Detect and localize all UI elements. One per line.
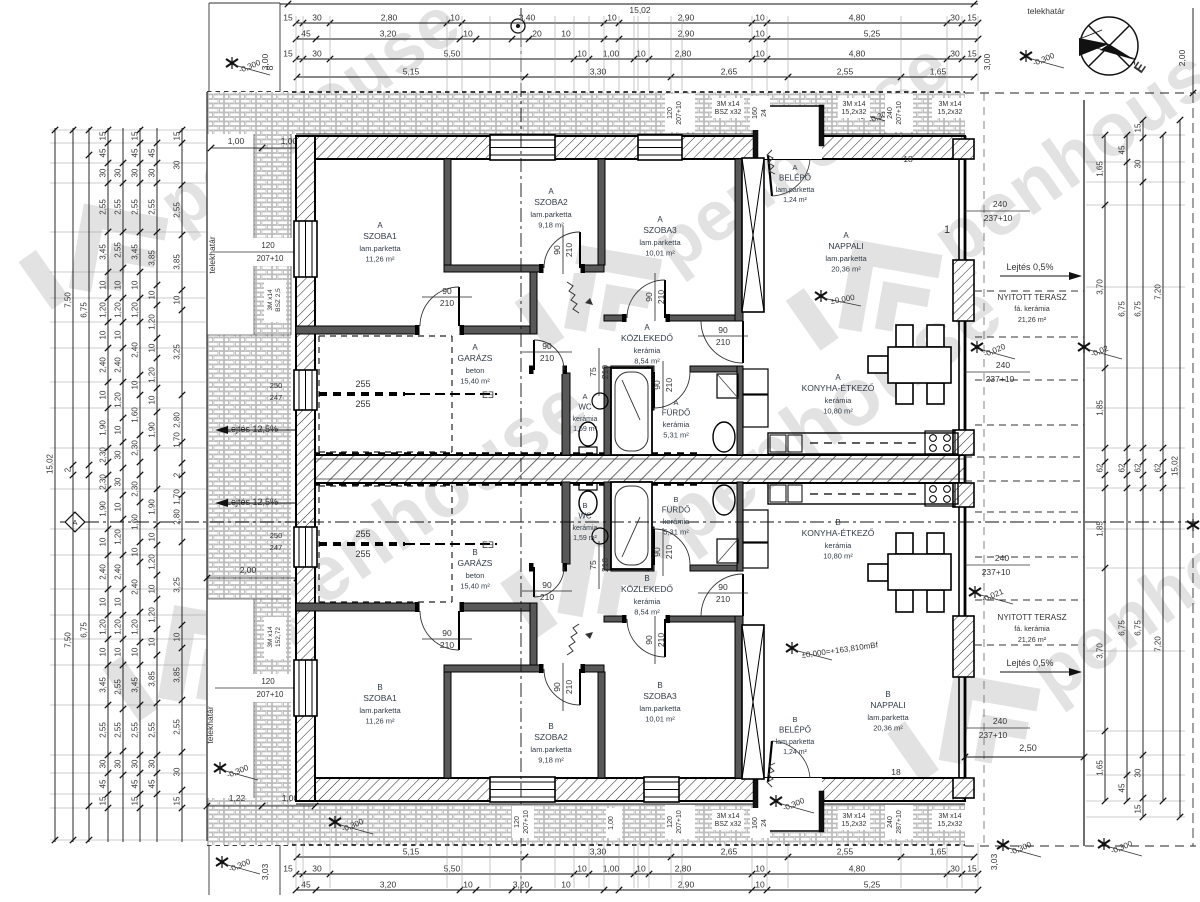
terrace dashed outline xyxy=(965,92,1196,94)
svg-text:6,75: 6,75 xyxy=(1118,620,1127,636)
svg-text:10: 10 xyxy=(148,584,157,593)
elevation star entry B xyxy=(770,795,782,807)
svg-text:B: B xyxy=(644,574,649,583)
svg-text:207+10: 207+10 xyxy=(257,254,284,263)
svg-text:fá. kerámia: fá. kerámia xyxy=(1014,304,1050,313)
terrace band continuation dashed xyxy=(965,456,1084,458)
dim 1,22 1,00 bottom left xyxy=(207,805,315,807)
elevation star entry A xyxy=(856,107,868,119)
svg-text:1,90: 1,90 xyxy=(99,501,108,517)
entry door leaf A xyxy=(768,155,772,196)
svg-text:15,2x32: 15,2x32 xyxy=(842,109,867,116)
door arc wc lobby xyxy=(534,340,564,370)
svg-text:15: 15 xyxy=(283,864,293,874)
svg-text:6,75: 6,75 xyxy=(1118,301,1127,317)
door arc szoba1 (B mirror) xyxy=(420,611,459,650)
bottom extension lines xyxy=(295,843,297,888)
svg-text:NYITOTT TERASZ: NYITOTT TERASZ xyxy=(997,613,1066,622)
svg-text:1,00: 1,00 xyxy=(603,864,620,874)
svg-text:10: 10 xyxy=(636,864,646,874)
door gap szoba3 (B mirror) xyxy=(626,615,666,623)
horizontal axis line (dash-dot) xyxy=(60,521,1196,523)
svg-text:SZOBA2: SZOBA2 xyxy=(534,197,568,207)
top dimension chain 3 xyxy=(296,58,978,60)
svg-text:3,85: 3,85 xyxy=(148,250,157,266)
axis marker top circle xyxy=(511,19,525,33)
svg-text:3M x14: 3M x14 xyxy=(939,101,962,108)
svg-text:10,01 m²: 10,01 m² xyxy=(645,715,675,724)
svg-text:30: 30 xyxy=(99,759,108,768)
door leaf szoba3 (B mirror) xyxy=(664,619,666,657)
svg-text:15,40 m²: 15,40 m² xyxy=(460,377,490,386)
property strip top (brick hatch) xyxy=(207,92,965,134)
svg-text:1,20: 1,20 xyxy=(114,529,123,545)
svg-text:45: 45 xyxy=(131,779,140,788)
svg-text:3M x14: 3M x14 xyxy=(843,101,866,108)
svg-text:15: 15 xyxy=(99,131,108,140)
terrace inner dashed lines A xyxy=(975,290,1084,292)
svg-text:B: B xyxy=(548,722,553,731)
svg-text:1,60: 1,60 xyxy=(131,407,140,423)
svg-text:SZOBA1: SZOBA1 xyxy=(363,693,397,703)
window bottom wall B2 xyxy=(644,777,679,802)
svg-text:3,45: 3,45 xyxy=(131,244,140,260)
svg-text:207+10: 207+10 xyxy=(676,101,683,125)
svg-text:30: 30 xyxy=(950,49,960,59)
svg-text:90: 90 xyxy=(644,635,654,645)
svg-text:1,85: 1,85 xyxy=(1096,400,1105,416)
svg-text:1,20: 1,20 xyxy=(114,619,123,635)
wall wc/bath (B mirror) xyxy=(604,482,611,570)
door leaf bath xyxy=(653,372,655,408)
axis marker left diamond xyxy=(65,512,85,532)
svg-text:210: 210 xyxy=(540,353,554,363)
svg-text:FÜRDŐ: FÜRDŐ xyxy=(662,409,690,418)
svg-text:30: 30 xyxy=(312,13,322,23)
svg-text:2,40: 2,40 xyxy=(131,579,140,595)
svg-text:WC: WC xyxy=(578,512,592,521)
svg-text:10: 10 xyxy=(450,13,460,23)
svg-text:10: 10 xyxy=(99,330,108,339)
svg-text:kerámia: kerámia xyxy=(663,420,691,429)
svg-text:90: 90 xyxy=(542,580,552,590)
svg-text:210: 210 xyxy=(440,640,454,650)
svg-text:lam.parketta: lam.parketta xyxy=(359,706,401,715)
svg-text:10,01 m²: 10,01 m² xyxy=(645,249,675,258)
svg-text:Lejtés 12,5%: Lejtés 12,5% xyxy=(226,424,278,434)
svg-text:240: 240 xyxy=(887,816,894,828)
svg-text:3,70: 3,70 xyxy=(1096,279,1105,295)
svg-text:20,36 m²: 20,36 m² xyxy=(873,724,903,733)
svg-text:10: 10 xyxy=(755,880,765,890)
svg-text:15: 15 xyxy=(967,13,977,23)
svg-text:62: 62 xyxy=(1118,463,1127,472)
svg-text:2,55: 2,55 xyxy=(99,722,108,738)
svg-text:A: A xyxy=(792,163,797,172)
svg-text:3M x14: 3M x14 xyxy=(717,101,740,108)
wall szoba2/szoba3 xyxy=(598,159,605,265)
svg-text:237+10: 237+10 xyxy=(982,567,1011,577)
svg-text:30: 30 xyxy=(173,160,182,169)
svg-text:Lejtés 0,5%: Lejtés 0,5% xyxy=(1006,262,1053,272)
compass rose xyxy=(1080,17,1138,75)
svg-text:15: 15 xyxy=(173,796,182,805)
svg-text:1,70: 1,70 xyxy=(173,432,182,448)
svg-text:15,2x32: 15,2x32 xyxy=(842,821,867,828)
elevation star bottom left1 xyxy=(214,762,226,774)
door leaf szoba3 xyxy=(664,280,666,318)
svg-text:10: 10 xyxy=(148,395,157,404)
dim 1,00 1,00 top left xyxy=(211,147,315,149)
svg-text:160: 160 xyxy=(752,817,759,829)
window bottom wall B1 xyxy=(490,777,555,802)
svg-text:B: B xyxy=(792,715,797,724)
svg-text:15,2x32: 15,2x32 xyxy=(938,109,963,116)
door arc szoba3 xyxy=(627,280,665,318)
svg-text:A: A xyxy=(548,187,554,196)
svg-text:A: A xyxy=(673,398,678,407)
wall szoba3/nappali xyxy=(735,159,743,321)
wall bath east (B mirror) xyxy=(737,482,743,571)
svg-text:3M x14: 3M x14 xyxy=(717,813,740,820)
svg-text:9,18 m²: 9,18 m² xyxy=(538,221,564,230)
wall szoba1 south / garage north xyxy=(296,326,530,334)
wall wc west xyxy=(562,373,570,455)
pier right wall B low xyxy=(953,483,974,507)
svg-text:fá. kerámia: fá. kerámia xyxy=(1014,624,1050,633)
svg-text:30: 30 xyxy=(950,13,960,23)
svg-text:1: 1 xyxy=(944,224,950,236)
svg-text:10: 10 xyxy=(131,647,140,656)
right dimension chain 4 xyxy=(1162,135,1164,801)
svg-text:kerámia: kerámia xyxy=(663,517,691,526)
svg-text:5,25: 5,25 xyxy=(864,880,881,890)
elevation star bottom mid xyxy=(329,816,341,828)
svg-text:45: 45 xyxy=(148,148,157,157)
left wall lintel label B xyxy=(264,617,286,659)
right dimension chain 2 xyxy=(1126,135,1128,801)
svg-text:15: 15 xyxy=(283,13,293,23)
svg-text:207+10: 207+10 xyxy=(257,690,284,699)
left extension lines grid xyxy=(50,129,207,131)
svg-text:1,85: 1,85 xyxy=(1096,521,1105,537)
top extension lines xyxy=(295,16,297,91)
svg-text:210: 210 xyxy=(656,633,666,647)
svg-text:B: B xyxy=(472,548,477,557)
bottom strip label 240 xyxy=(885,805,913,839)
svg-text:15,40 m²: 15,40 m² xyxy=(460,582,490,591)
right extension lines grid xyxy=(1086,134,1185,136)
top dimension chain 2 xyxy=(296,38,978,40)
exterior wall right (glazing line) xyxy=(958,159,960,778)
door leaf nappali (B mirror) xyxy=(742,574,744,616)
svg-text:1,65: 1,65 xyxy=(930,847,947,857)
svg-text:90: 90 xyxy=(442,628,452,638)
door arc szoba1 xyxy=(420,287,459,326)
top dimension chain 4 xyxy=(297,76,974,78)
svg-text:2,80: 2,80 xyxy=(675,49,692,59)
svg-text:1,00: 1,00 xyxy=(228,136,245,146)
terrace 240 labels B xyxy=(965,564,1030,566)
svg-text:4,80: 4,80 xyxy=(849,13,866,23)
svg-text:30: 30 xyxy=(131,759,140,768)
svg-text:237+10: 237+10 xyxy=(979,730,1008,740)
door leaf wc lobby xyxy=(533,340,535,370)
svg-text:2,90: 2,90 xyxy=(678,13,695,23)
svg-text:30: 30 xyxy=(114,450,123,459)
svg-text:2,40: 2,40 xyxy=(114,357,123,373)
svg-text:120: 120 xyxy=(261,677,275,686)
svg-text:kerámia: kerámia xyxy=(573,525,598,532)
svg-text:5,15: 5,15 xyxy=(403,847,420,857)
svg-text:10: 10 xyxy=(114,597,123,606)
svg-text:5,50: 5,50 xyxy=(444,49,461,59)
window left wall szoba1 A xyxy=(294,221,317,277)
svg-text:30: 30 xyxy=(312,49,322,59)
door gap szoba1 xyxy=(419,325,460,335)
svg-text:30: 30 xyxy=(950,864,960,874)
entry recess B (belepo) xyxy=(756,778,822,832)
svg-text:15: 15 xyxy=(131,131,140,140)
svg-text:10: 10 xyxy=(636,49,646,59)
svg-text:10: 10 xyxy=(577,864,587,874)
svg-text:2,80: 2,80 xyxy=(381,13,398,23)
svg-text:2,30: 2,30 xyxy=(131,440,140,456)
svg-text:45: 45 xyxy=(99,148,108,157)
wall bath north east xyxy=(690,366,743,372)
svg-text:10: 10 xyxy=(99,537,108,546)
svg-text:240: 240 xyxy=(996,360,1010,370)
svg-text:beton: beton xyxy=(466,571,485,580)
label 120 207+10 left wall upper xyxy=(252,238,292,266)
top dimension chain 1 xyxy=(296,22,978,24)
svg-text:45: 45 xyxy=(131,148,140,157)
svg-text:45: 45 xyxy=(301,880,311,890)
svg-text:210: 210 xyxy=(716,594,730,604)
svg-text:3,45: 3,45 xyxy=(99,677,108,693)
svg-text:1,20: 1,20 xyxy=(99,302,108,318)
bottom strip label 3Mx14 b xyxy=(838,810,870,830)
bottom strip label 120/207+10 xyxy=(665,805,695,839)
svg-text:210: 210 xyxy=(600,365,610,379)
svg-text:1,20: 1,20 xyxy=(99,619,108,635)
svg-text:SZOBA3: SZOBA3 xyxy=(643,691,677,701)
svg-text:6,75: 6,75 xyxy=(1134,620,1143,636)
top strip label 3Mx14 b xyxy=(838,98,870,118)
property strip bottom (brick hatch) xyxy=(207,804,965,845)
svg-text:30: 30 xyxy=(1134,159,1143,168)
svg-text:B: B xyxy=(885,690,890,699)
svg-text:lam.parketta: lam.parketta xyxy=(825,254,867,263)
svg-text:4,80: 4,80 xyxy=(849,864,866,874)
svg-text:30: 30 xyxy=(148,759,157,768)
svg-text:30: 30 xyxy=(148,168,157,177)
zigzag leader B xyxy=(567,624,579,655)
bottom strip label 1,00 xyxy=(606,808,622,838)
svg-text:10: 10 xyxy=(114,502,123,511)
label 120 207+10 left wall lower xyxy=(252,674,292,702)
svg-text:1,20: 1,20 xyxy=(148,314,157,330)
svg-text:Lejtés 0,5%: Lejtés 0,5% xyxy=(1006,658,1053,668)
vertical axis line (dash-dot) xyxy=(520,8,522,893)
pier right wall bottom corner xyxy=(953,778,974,798)
svg-text:kerámia: kerámia xyxy=(825,396,853,405)
svg-text:8,54 m²: 8,54 m² xyxy=(634,608,660,617)
svg-text:210: 210 xyxy=(664,545,674,559)
wall wc/bath xyxy=(604,367,611,455)
svg-text:lam.parketta: lam.parketta xyxy=(359,244,401,253)
svg-text:3M x14: 3M x14 xyxy=(267,626,274,648)
door arc bath (B mirror) xyxy=(654,529,690,565)
svg-text:7,50: 7,50 xyxy=(64,632,73,648)
svg-text:10,80 m²: 10,80 m² xyxy=(823,552,853,561)
svg-text:18: 18 xyxy=(891,767,901,777)
svg-text:2,55: 2,55 xyxy=(114,722,123,738)
svg-text:237+10: 237+10 xyxy=(984,213,1013,223)
svg-text:A: A xyxy=(835,373,841,382)
svg-text:30: 30 xyxy=(173,767,182,776)
svg-text:BELÉPŐ: BELÉPŐ xyxy=(779,174,811,183)
elevation star terrace B xyxy=(969,586,981,598)
svg-text:15: 15 xyxy=(99,796,108,805)
bottom strip label 3Mx14 a xyxy=(712,810,744,830)
terrace 240 labels A xyxy=(965,210,1030,212)
svg-text:15,02: 15,02 xyxy=(1171,455,1180,476)
bottom strip label 3Mx14 c xyxy=(932,810,968,830)
svg-text:10: 10 xyxy=(173,632,182,641)
elevation star bottom right2 xyxy=(1098,838,1110,850)
window top wall A2 xyxy=(638,135,682,160)
svg-text:1,59 m²: 1,59 m² xyxy=(573,426,597,433)
svg-text:1,65: 1,65 xyxy=(930,67,947,77)
door arc nappali (B mirror) xyxy=(701,574,743,616)
svg-text:30: 30 xyxy=(114,477,123,486)
svg-text:2: 2 xyxy=(173,472,182,477)
svg-text:10: 10 xyxy=(148,290,157,299)
svg-text:GARÁZS: GARÁZS xyxy=(458,558,493,568)
svg-text:2,55: 2,55 xyxy=(173,202,182,218)
wall szoba1 south / garage north (B mirror) xyxy=(296,603,530,611)
property corner box top left xyxy=(208,3,210,92)
svg-text:152,72: 152,72 xyxy=(275,627,282,647)
svg-text:240: 240 xyxy=(993,199,1007,209)
svg-text:4,80: 4,80 xyxy=(849,49,866,59)
svg-text:24: 24 xyxy=(761,819,768,827)
svg-text:KÖZLEKEDŐ: KÖZLEKEDŐ xyxy=(621,584,673,594)
svg-text:5,50: 5,50 xyxy=(444,864,461,874)
fixtures unit B (mirror) xyxy=(579,482,958,779)
svg-text:3M x14: 3M x14 xyxy=(267,289,274,311)
door leaf szoba1 xyxy=(458,287,460,326)
svg-text:3,85: 3,85 xyxy=(148,671,157,687)
wall szoba2 south (B mirror) xyxy=(444,665,604,672)
svg-text:2,90: 2,90 xyxy=(678,880,695,890)
svg-text:10: 10 xyxy=(99,597,108,606)
elevation star terrace A1 xyxy=(971,341,983,353)
window left wall szoba1 B xyxy=(294,660,317,716)
zigzag leader entry A xyxy=(767,150,775,174)
svg-text:1,59 m²: 1,59 m² xyxy=(573,535,597,542)
svg-text:beton: beton xyxy=(466,366,485,375)
svg-text:SZOBA2: SZOBA2 xyxy=(534,732,568,742)
svg-text:2,65: 2,65 xyxy=(721,847,738,857)
top strip label 120/207+10 xyxy=(665,94,695,132)
svg-text:62: 62 xyxy=(1134,463,1143,472)
svg-text:1,20: 1,20 xyxy=(114,392,123,408)
svg-text:SZOBA3: SZOBA3 xyxy=(643,225,677,235)
svg-text:15: 15 xyxy=(131,796,140,805)
svg-text:1,20: 1,20 xyxy=(131,619,140,635)
svg-text:3,20: 3,20 xyxy=(380,880,397,890)
svg-text:B: B xyxy=(582,501,587,510)
svg-text:3,20: 3,20 xyxy=(380,29,397,39)
svg-text:90: 90 xyxy=(718,582,728,592)
svg-text:10,80 m²: 10,80 m² xyxy=(823,407,853,416)
elevation star terrace A2 xyxy=(1078,341,1090,353)
svg-text:6,75: 6,75 xyxy=(80,622,89,638)
left dimension chain 6,75 xyxy=(88,128,90,842)
svg-text:3,25: 3,25 xyxy=(173,344,182,360)
svg-text:240: 240 xyxy=(995,553,1009,563)
svg-text:1,20: 1,20 xyxy=(131,302,140,318)
svg-text:10: 10 xyxy=(561,880,571,890)
svg-text:2,40: 2,40 xyxy=(99,564,108,580)
property strip left (brick hatch) xyxy=(207,92,291,335)
svg-text:10: 10 xyxy=(561,29,571,39)
svg-text:210: 210 xyxy=(656,290,666,304)
svg-text:30: 30 xyxy=(99,168,108,177)
svg-text:NYITOTT TERASZ: NYITOTT TERASZ xyxy=(997,293,1066,302)
svg-text:lam.parketta: lam.parketta xyxy=(776,187,815,194)
svg-text:2,90: 2,90 xyxy=(678,29,695,39)
right dimension chain 3 xyxy=(1142,120,1144,817)
svg-text:7,50: 7,50 xyxy=(64,292,73,308)
svg-text:3,85: 3,85 xyxy=(173,667,182,683)
svg-text:kerámia: kerámia xyxy=(573,416,598,423)
svg-text:NAPPALI: NAPPALI xyxy=(828,241,863,251)
left dimension chain 15,02 xyxy=(54,128,56,842)
svg-text:45: 45 xyxy=(99,779,108,788)
svg-text:237+10: 237+10 xyxy=(986,374,1015,384)
svg-text:3,85: 3,85 xyxy=(173,254,182,270)
svg-text:6,75: 6,75 xyxy=(1134,301,1143,317)
svg-text:2,65: 2,65 xyxy=(721,67,738,77)
pier right wall A mid xyxy=(953,260,974,321)
wall szoba3/nappali (B mirror) xyxy=(735,616,743,778)
svg-text:10: 10 xyxy=(131,547,140,556)
svg-text:247: 247 xyxy=(270,393,283,402)
svg-text:10: 10 xyxy=(99,280,108,289)
svg-text:8,54 m²: 8,54 m² xyxy=(634,357,660,366)
svg-text:2,55: 2,55 xyxy=(837,847,854,857)
svg-text:10: 10 xyxy=(463,880,473,890)
svg-text:3,03: 3,03 xyxy=(260,863,270,880)
svg-text:255: 255 xyxy=(355,529,370,539)
svg-text:Lejtés 12,5%: Lejtés 12,5% xyxy=(226,497,278,507)
svg-text:75: 75 xyxy=(588,560,598,570)
window left wall garage B xyxy=(294,527,317,567)
svg-text:KONYHA-ÉTKEZŐ: KONYHA-ÉTKEZŐ xyxy=(802,528,875,538)
top strip label 3Mx14 a xyxy=(712,98,744,118)
svg-text:1,20: 1,20 xyxy=(148,554,157,570)
svg-text:A: A xyxy=(644,323,650,332)
svg-text:2,55: 2,55 xyxy=(173,719,182,735)
door leaf szoba2 (B mirror) xyxy=(579,669,581,705)
svg-text:1,24 m²: 1,24 m² xyxy=(783,749,807,756)
svg-text:lam.parketta: lam.parketta xyxy=(639,704,681,713)
property corner box bottom left xyxy=(208,845,210,895)
svg-text:3M x14: 3M x14 xyxy=(939,813,962,820)
